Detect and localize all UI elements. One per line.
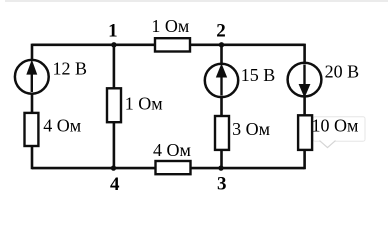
svg-text:20 В: 20 В xyxy=(325,62,360,82)
svg-text:1 Ом: 1 Ом xyxy=(151,16,189,36)
svg-text:15 В: 15 В xyxy=(241,65,276,85)
svg-text:1 Ом: 1 Ом xyxy=(125,93,163,113)
svg-text:3: 3 xyxy=(217,173,227,194)
svg-text:3 Ом: 3 Ом xyxy=(232,119,270,139)
svg-text:4: 4 xyxy=(110,174,120,195)
svg-text:12 В: 12 В xyxy=(53,59,88,79)
svg-text:1: 1 xyxy=(108,20,118,41)
svg-text:10 Ом: 10 Ом xyxy=(312,115,359,135)
svg-text:2: 2 xyxy=(216,21,226,42)
svg-text:4 Ом: 4 Ом xyxy=(43,115,81,135)
svg-text:4 Ом: 4 Ом xyxy=(153,140,191,160)
